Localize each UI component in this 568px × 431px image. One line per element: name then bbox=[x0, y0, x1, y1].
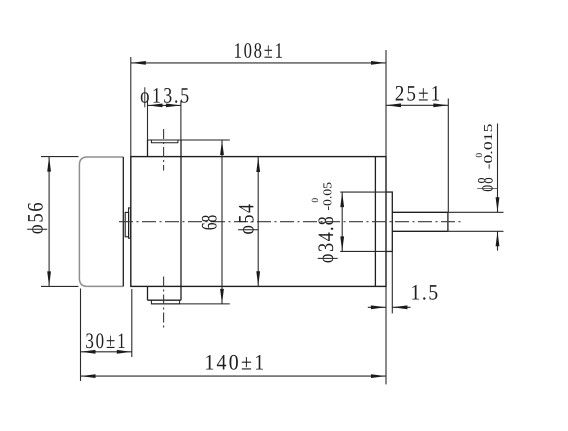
dim 1.5 extension right bbox=[391, 252, 393, 313]
dim 25 extension right / shaft end ext bbox=[447, 99, 449, 213]
label 68 rotated bbox=[202, 215, 217, 229]
arrow phi56 top bbox=[47, 157, 51, 172]
arrow 30 left bbox=[81, 350, 96, 354]
label ϕ34.8 tol -0.05 rotated bbox=[323, 183, 331, 211]
dim 30 extension left bbox=[80, 289, 82, 382]
label ϕ8 tol 0 rotated bbox=[476, 153, 482, 157]
dim phi56 extension bottom bbox=[41, 285, 79, 287]
bottom boss bbox=[147, 286, 149, 300]
arrow 1.5 right (pointing left) bbox=[392, 305, 407, 309]
dim phi13.5 line bbox=[148, 104, 181, 106]
arrow phi56 bottom bbox=[47, 271, 51, 286]
label ϕ56 rotated bbox=[27, 203, 47, 234]
dim 1.5 arrow tails bbox=[368, 306, 386, 308]
dim phi13.5 extension right bbox=[180, 100, 182, 140]
dim 30 line bbox=[81, 351, 132, 353]
dim phi34.8 extension bottom bbox=[340, 250, 391, 252]
dim 108 line bbox=[131, 62, 386, 64]
label 140±1 bbox=[206, 355, 263, 370]
front pilot boss phi34.8 bbox=[386, 192, 392, 252]
dim phi54 line bbox=[257, 157, 259, 286]
arrow phi8 top (pointing down) bbox=[496, 197, 500, 212]
arrow phi8 bottom (pointing up) bbox=[496, 231, 500, 246]
arrow phi34.8 top bbox=[340, 192, 344, 207]
arrow 1.5 left (pointing right) bbox=[371, 305, 386, 309]
shaft stub step small bbox=[125, 212, 128, 236]
dim phi56 extension top bbox=[41, 156, 79, 158]
gearbox housing outline bbox=[131, 157, 386, 287]
front plate joint line bbox=[374, 157, 376, 287]
arrow 108 right bbox=[371, 61, 386, 65]
arrow 13.5 right bbox=[166, 104, 181, 108]
motor body (rear rounded housing) bbox=[79, 157, 123, 286]
dim 68 line bbox=[221, 140, 223, 304]
dim 140 extension right bbox=[385, 287, 387, 384]
top boss washer bbox=[151, 140, 178, 143]
label 108±1 bbox=[235, 43, 282, 58]
dim 108 extension left bbox=[130, 57, 132, 156]
arrow 140 left bbox=[81, 374, 96, 378]
bottom boss washer bbox=[151, 300, 179, 304]
dim phi13.5 extension left bbox=[147, 100, 149, 140]
arrow 25 right bbox=[433, 103, 448, 107]
dim phi56 line bbox=[48, 157, 50, 287]
dim 108/25 extension middle (front face) bbox=[385, 50, 387, 156]
arrow 30 right bbox=[117, 350, 132, 354]
centerline vertical boss top bbox=[163, 129, 165, 171]
label 1.5 bbox=[412, 285, 437, 300]
dim phi8 extension top bbox=[448, 211, 504, 213]
arrow 108 left bbox=[131, 61, 146, 65]
gearbox internal joint line bbox=[180, 140, 182, 300]
centerline vertical boss bottom bbox=[163, 277, 165, 331]
arrow phi54 top bbox=[256, 157, 260, 172]
dim phi34.8 extension top bbox=[340, 191, 391, 193]
dim phi34.8 line bbox=[341, 192, 343, 251]
output shaft phi8 bbox=[392, 211, 448, 213]
shaft end face bbox=[447, 212, 449, 231]
arrow phi34.8 bottom bbox=[340, 236, 344, 251]
dim phi8 extension bottom bbox=[448, 230, 504, 232]
label ϕ8 rotated bbox=[477, 178, 497, 191]
centerline horizontal axis bbox=[119, 129, 464, 331]
arrow 68 top bbox=[220, 140, 224, 155]
top boss phi13.5 bbox=[147, 140, 149, 157]
label 30±1 bbox=[86, 333, 124, 348]
motor front face edge bbox=[122, 157, 124, 286]
label 25±1 bbox=[396, 86, 439, 101]
dim phi8 line upper bbox=[497, 124, 499, 213]
arrow 25 left bbox=[386, 103, 401, 107]
shaft stub step large bbox=[129, 208, 131, 238]
arrow 140 right bbox=[371, 374, 386, 378]
arrow phi54 bottom bbox=[256, 271, 260, 286]
dim 30 extension right bbox=[131, 289, 133, 357]
label ϕ8 tol -0.015 rotated bbox=[484, 124, 492, 169]
bottom boss extension line for 68 bbox=[151, 303, 229, 305]
label ϕ13.5 bbox=[141, 87, 189, 107]
dim 140 line bbox=[81, 375, 387, 377]
dim phi8 line lower bbox=[497, 231, 499, 250]
arrow 13.5 left bbox=[148, 104, 163, 108]
arrowheads bbox=[47, 61, 499, 378]
label ϕ34.8 tol 0 rotated bbox=[312, 198, 318, 202]
arrow 68 bottom bbox=[220, 289, 224, 304]
label ϕ54 rotated bbox=[238, 204, 258, 234]
dim 25 line bbox=[386, 104, 448, 106]
label ϕ34.8 rotated bbox=[318, 217, 338, 263]
